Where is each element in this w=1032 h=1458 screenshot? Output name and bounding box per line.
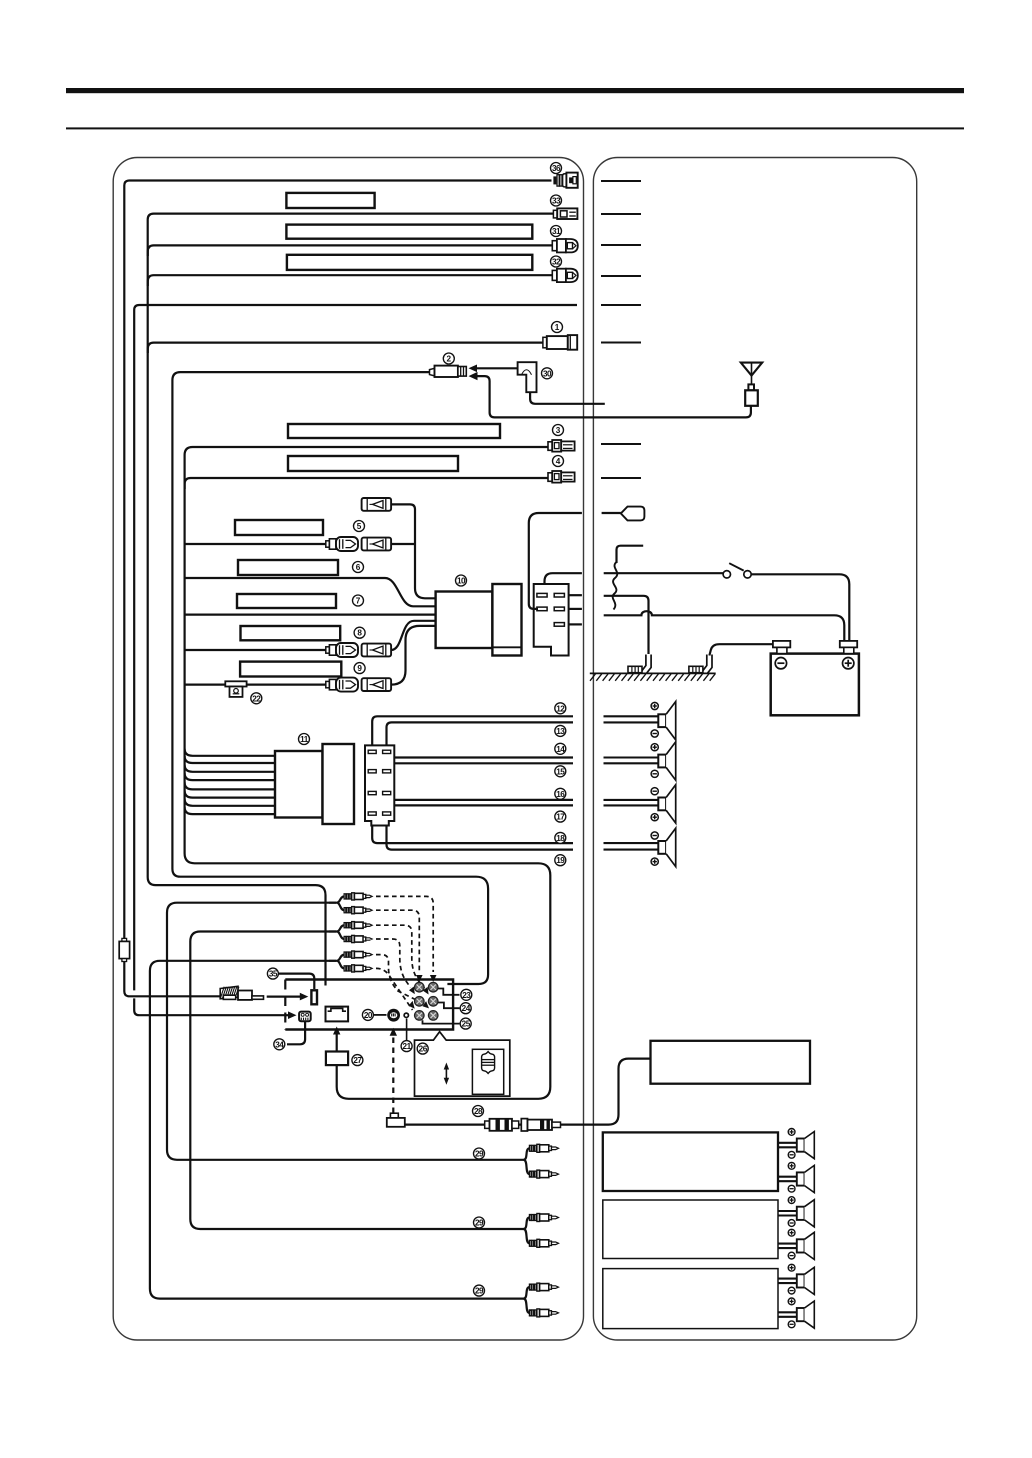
item 34 leader	[287, 1021, 305, 1044]
block 11 harness connector body	[275, 751, 323, 818]
dashed lead pair3 lower to jack R3 left	[376, 968, 413, 1010]
wire 7 lead into block 10	[185, 613, 437, 615]
svg-text:32: 32	[552, 258, 561, 267]
connector pair 5 lower (bullets)	[326, 537, 358, 551]
connector 3	[548, 440, 575, 452]
circled label 20	[362, 1009, 373, 1020]
block 10 power connector body	[436, 592, 493, 649]
svg-text:29: 29	[475, 1150, 484, 1159]
wire 13	[387, 722, 574, 750]
circled label 22	[251, 693, 262, 704]
connector 4	[548, 471, 575, 483]
block 11 harness wire 1	[185, 749, 275, 756]
circled label 32	[551, 256, 562, 267]
svg-text:11: 11	[300, 735, 309, 744]
rectangular socket (item 27 target)	[326, 1007, 349, 1022]
circled label 19	[555, 855, 566, 866]
speaker pin slots	[368, 750, 376, 753]
wire 6 lead into block 10	[185, 578, 437, 606]
dashed lead pair2 lower to jack R2 left	[376, 939, 411, 988]
block 10 mating receptacle outline	[534, 584, 569, 656]
svg-text:21: 21	[403, 1042, 412, 1051]
RCA pair 2 plugs	[344, 922, 372, 929]
svg-text:10: 10	[457, 577, 466, 586]
wire 36 (power antenna lead w/ inline fuse)	[124, 181, 551, 997]
3.5mm jack (item 21 target)	[403, 1012, 409, 1018]
circled label 21	[401, 1041, 412, 1052]
wire 33 lead + long vertical + cable into head unit top	[148, 214, 554, 986]
label box for 8	[241, 626, 341, 640]
amp speaker 2	[778, 1162, 814, 1192]
label box for 9	[240, 662, 341, 677]
amp system box 1	[603, 1132, 778, 1191]
wire 17	[387, 795, 574, 806]
svg-text:18: 18	[556, 834, 565, 843]
svg-text:27: 27	[353, 1056, 362, 1065]
block 11 harness wire 2	[185, 756, 275, 763]
svg-text:28: 28	[474, 1107, 483, 1116]
label box for 6	[238, 560, 338, 575]
item 26 box with pointer notch	[415, 1032, 510, 1096]
label box for 4	[288, 456, 458, 471]
circled label 4	[553, 456, 564, 467]
circled label 35	[267, 968, 278, 979]
wire from item 30 plug down-right (to vehicle antenna cable)	[530, 392, 605, 404]
svg-text:15: 15	[556, 767, 565, 776]
circled label 25	[460, 1018, 471, 1029]
right panel label line 8	[601, 477, 641, 479]
svg-text:35: 35	[269, 970, 278, 979]
circled label 26	[417, 1043, 428, 1054]
bracket to circled 24	[438, 1003, 460, 1009]
item 21 leader	[406, 1019, 408, 1042]
dashed link: plug 28 to jack 21	[392, 1036, 394, 1113]
label box for 33	[286, 193, 374, 208]
wire 3 lead + shared vertical + loop L1 to item 27	[185, 447, 551, 1099]
circled label 17	[555, 811, 566, 822]
battery minus symbol	[775, 658, 786, 669]
circled label 8	[354, 627, 365, 638]
battery minus wire to chassis lug	[709, 644, 777, 655]
circled label 10	[456, 575, 467, 586]
wire 19	[387, 815, 574, 849]
antenna plug on wire 36	[220, 986, 263, 1000]
label box for 7	[237, 594, 336, 608]
RCA cable pair A (to 29 #1)	[167, 903, 524, 1160]
circled label 3	[553, 425, 564, 436]
svg-text:23: 23	[462, 991, 471, 1000]
circled label 5	[354, 521, 365, 532]
item 35 antenna slot on rear panel	[311, 990, 317, 1004]
block 11 harness wire 3	[185, 765, 275, 772]
label box for 5	[235, 520, 323, 535]
wire 16	[372, 795, 573, 800]
circled label 31	[551, 226, 562, 237]
svg-text:30: 30	[543, 369, 552, 378]
speaker rear left (wires 16/17)	[604, 799, 659, 801]
svg-text:16: 16	[556, 790, 565, 799]
vehicle battery	[771, 641, 859, 715]
svg-text:1: 1	[555, 323, 560, 332]
chassis ground lug 2	[689, 655, 712, 674]
circled label 12	[555, 703, 566, 714]
USB drive icon	[482, 1052, 495, 1074]
item 28 inline connectors	[485, 1119, 519, 1131]
battery plus symbol	[843, 658, 854, 669]
label box for 3	[288, 424, 500, 438]
bracket to circled 23	[438, 989, 460, 995]
item 29 cable 1 Y-split and plugs	[524, 1148, 530, 1160]
wire 9 left lead (through fuse holder 22)	[185, 683, 327, 685]
connector 36	[553, 173, 577, 188]
svg-text:17: 17	[556, 813, 565, 822]
connector 2 (antenna jack barrel)	[430, 366, 467, 377]
circled label 36	[551, 163, 562, 174]
connector pair 9 (bullets)	[326, 678, 358, 692]
arrow from 27 box to socket	[336, 1034, 338, 1052]
amp speaker 6	[778, 1298, 814, 1328]
item 27 box	[326, 1052, 348, 1066]
right panel label line 7	[601, 443, 641, 445]
circled label 33	[551, 195, 562, 206]
circled label 14	[555, 743, 566, 754]
svg-text:33: 33	[552, 197, 561, 206]
svg-text:3: 3	[556, 426, 561, 435]
svg-text:25: 25	[462, 1020, 471, 1029]
dashed lead pair1 upper to jack R1 right	[376, 896, 433, 972]
label box for 32	[287, 255, 532, 270]
item 29 cable 2 Y-split and plugs	[524, 1218, 530, 1230]
circled label 1	[552, 322, 563, 333]
circled label 28	[473, 1106, 484, 1117]
wire 32 lead	[148, 275, 553, 286]
svg-text:19: 19	[556, 856, 565, 865]
right panel label line 1	[601, 180, 641, 182]
svg-text:36: 36	[552, 164, 561, 173]
svg-text:8: 8	[357, 629, 362, 638]
RCA cable pair C (to 29 #3)	[150, 961, 524, 1299]
wire 31 lead	[148, 245, 553, 256]
block 11 plug housing	[323, 744, 355, 824]
svg-text:29: 29	[475, 1219, 484, 1228]
circled label 24	[460, 1003, 471, 1014]
circled label 6	[353, 562, 364, 573]
wire 5 left lead	[185, 543, 327, 545]
block 11 harness wire 7	[185, 799, 275, 806]
item 22 fuse holder on wire 9	[225, 681, 246, 697]
circled label 16	[555, 788, 566, 799]
item 20 leader	[374, 1014, 387, 1016]
wire 9 right into block 10	[391, 626, 437, 685]
wire 2 (antenna jack lead) + loop to rear aux (L2)	[172, 372, 488, 984]
connector 33	[553, 208, 577, 219]
svg-text:14: 14	[556, 745, 565, 754]
circled label 30	[542, 368, 553, 379]
connector 31 (spade terminal)	[552, 239, 578, 252]
amp system box 2	[603, 1200, 778, 1259]
wire 305 (bare lead to vehicle) + down to DIN arrow 34	[134, 305, 577, 990]
svg-text:13: 13	[556, 727, 565, 736]
circled label 27	[352, 1055, 363, 1066]
right panel label line 2	[601, 213, 641, 215]
right panel border (vehicle side)	[593, 158, 916, 1341]
head unit rear panel box	[285, 980, 453, 1030]
circled label 2	[443, 353, 454, 364]
dashed lead pair3 upper to jack R3 right	[376, 955, 424, 1004]
chassis ground lug 1	[628, 655, 651, 674]
item 35 leader	[279, 974, 315, 989]
block 11 harness wire 6	[185, 791, 275, 798]
circled label 29	[474, 1148, 485, 1159]
switch blade	[729, 563, 744, 570]
connector 32 (spade terminal)	[552, 269, 578, 282]
connector 1 (antenna socket)	[543, 335, 577, 350]
block 10 receptacle pins	[537, 593, 547, 597]
speaker rear right (wires 18/19)	[604, 842, 659, 844]
svg-text:12: 12	[556, 704, 565, 713]
wire 8 right into block 10	[391, 621, 437, 650]
RCA pair 2 Y-split	[329, 925, 344, 931]
connector pair 8 (bullets)	[326, 643, 358, 657]
block 11 harness wire 8	[185, 807, 275, 814]
svg-text:2: 2	[447, 355, 452, 364]
svg-text:22: 22	[252, 694, 261, 703]
circled label 15	[555, 766, 566, 777]
receptacle pin leads to vehicle	[569, 594, 582, 596]
circled label 18	[555, 832, 566, 843]
RCA pair 3 plugs	[344, 951, 372, 958]
block 11 harness wire 5	[185, 782, 275, 789]
circled label 13	[555, 725, 566, 736]
amp speaker 4	[778, 1229, 814, 1259]
top thick rule	[66, 88, 964, 93]
fused battery lead tag	[602, 512, 621, 514]
firewall squiggle	[613, 562, 618, 610]
circled label 23	[461, 989, 472, 1000]
block 11 harness wire 4	[185, 773, 275, 780]
svg-text:5: 5	[357, 522, 362, 531]
item 29 cable 3 Y-split and plugs	[524, 1287, 530, 1299]
wire 4 lead	[185, 478, 548, 489]
item 30 right-angle antenna adapter plug	[518, 362, 537, 392]
rear RCA jacks (23,24,25)	[415, 982, 425, 992]
circled label 29	[474, 1217, 485, 1228]
wire 5 right: two bullet stubs joined, into block 10	[391, 504, 437, 598]
arrow: antenna cable plugs into connector 2	[469, 372, 478, 380]
wire 18	[372, 815, 573, 843]
item 28 right-angle plug	[387, 1113, 405, 1127]
svg-text:34: 34	[275, 1040, 284, 1049]
circled label 34	[274, 1039, 285, 1050]
circled label 11	[299, 734, 310, 745]
top thin rule	[66, 127, 964, 129]
right panel label line 4	[601, 275, 641, 277]
vehicle antenna symbol	[751, 363, 753, 384]
svg-text:24: 24	[462, 1004, 471, 1013]
external amplifier box (item 28 target)	[651, 1041, 811, 1084]
item 26 inner box	[472, 1049, 503, 1094]
up-down arrow	[445, 1068, 447, 1079]
wire 28 extension to amplifier box	[405, 1059, 651, 1125]
dashed lead pair2 upper to jack R2 right	[376, 925, 425, 988]
constant power wire to battery + (with hop)	[604, 611, 845, 640]
firewall bracket stub	[617, 546, 644, 563]
round DIN connector (item 20 target)	[387, 1009, 400, 1022]
RCA pair 1 Y-split	[329, 896, 344, 902]
svg-text:4: 4	[556, 457, 561, 466]
RCA cable pair B (to 29 #2)	[190, 932, 523, 1230]
amp speaker 3	[778, 1197, 814, 1227]
svg-text:9: 9	[357, 664, 362, 673]
switched power wire through ignition switch to battery +	[604, 572, 723, 574]
svg-text:6: 6	[356, 563, 361, 572]
wire 8 left lead	[185, 649, 327, 651]
label box for 31	[286, 225, 532, 239]
amp speaker 1	[778, 1129, 814, 1159]
wire from pin to fused battery lead (tag)	[529, 513, 582, 609]
svg-text:7: 7	[356, 597, 361, 606]
right panel label line 6	[601, 342, 641, 344]
RCA pair 1 plugs	[344, 893, 372, 900]
speaker front left (wires 12/13)	[604, 715, 659, 717]
circled label 29	[474, 1285, 485, 1296]
speaker front right (wires 14/15)	[604, 756, 659, 758]
arrow: item 30 plugs into connector 2	[477, 367, 518, 369]
wire 14	[372, 758, 573, 770]
wire 1 lead (antenna socket lead)	[148, 343, 544, 353]
svg-text:26: 26	[419, 1045, 428, 1054]
connector pair 5 upper (bullet, spare)	[362, 498, 392, 511]
amp speaker 5	[778, 1264, 814, 1294]
svg-text:31: 31	[552, 227, 561, 236]
RCA pair 3 Y-split	[329, 955, 344, 961]
item: inline fuse on wire 36	[119, 938, 129, 961]
left panel border (head unit cable side)	[113, 158, 583, 1341]
right panel label line 3	[601, 244, 641, 246]
ground wire to chassis lug	[604, 596, 649, 654]
chassis ground hatched strip	[590, 672, 716, 674]
right panel label line 5	[601, 304, 641, 306]
vehicle antenna cable: from arrow at connector 2 down and right to antenna plug	[477, 376, 751, 417]
wire from receptacle top (switched lead)	[545, 573, 582, 585]
bracket to circled 25	[423, 1020, 460, 1023]
wire 15	[387, 763, 574, 769]
circled label 7	[353, 595, 364, 606]
svg-text:20: 20	[364, 1011, 373, 1020]
dashed lead pair1 lower to jack R1 left	[376, 910, 419, 972]
DIN socket (item 34 target)	[299, 1012, 311, 1022]
wire 12	[372, 716, 573, 750]
svg-text:29: 29	[475, 1287, 484, 1296]
block 10 plug housing	[492, 584, 521, 656]
speaker pin connector outline	[365, 745, 394, 825]
circled label 9	[354, 663, 365, 674]
amp system box 3	[603, 1269, 778, 1329]
arrow: antenna plug into slot 35	[267, 995, 301, 997]
